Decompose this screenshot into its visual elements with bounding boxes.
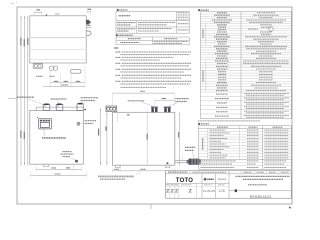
plan view outline — [30, 16, 86, 63]
title block drawing number cell — [229, 189, 291, 199]
side view label supply valve right — [169, 99, 189, 106]
plan view bottom fitting B — [49, 66, 58, 70]
plan view under-dimension row 2 — [43, 85, 85, 86]
front view top fitting 3 — [77, 103, 83, 111]
header parts table — [198, 123, 209, 125]
header maker info — [117, 9, 128, 11]
svg-text:REKB01A23: REKB01A23 — [250, 195, 271, 199]
header replacement unit — [116, 34, 133, 36]
side view inner dimension label — [147, 134, 148, 140]
height dimension line 2 — [24, 16, 25, 166]
side view inner vertical line 2 — [116, 112, 118, 122]
release table — [116, 11, 189, 33]
plan view right fitting dark — [86, 20, 90, 25]
front view under dimension row 2 — [31, 172, 87, 178]
front view note text and drain dot — [61, 152, 78, 163]
spec table — [200, 12, 291, 119]
side view connection block with pipe circles — [106, 106, 117, 112]
power lamp label right of front view — [80, 121, 96, 124]
side view outline — [113, 112, 175, 165]
stop valve detail drawing — [175, 159, 201, 165]
label stop valve W32 — [51, 99, 67, 104]
side view top dimension 350 — [112, 91, 174, 112]
plan view inner line 3 — [30, 59, 86, 61]
header spec table — [198, 9, 209, 11]
parts table — [199, 126, 292, 170]
side view bottom dimension row — [113, 168, 175, 173]
stop valve detail label — [185, 147, 196, 157]
front view foot — [43, 164, 48, 166]
front view top fitting 2 — [56, 104, 63, 111]
replacement unit table — [116, 37, 189, 45]
front view top fitting 1 — [43, 104, 50, 111]
title block top row — [166, 171, 292, 174]
height dimension line 3 — [27, 16, 28, 166]
svg-text:21.06.25: 21.06.25 — [203, 189, 215, 193]
side view label stop valve — [128, 101, 153, 106]
height dimension label 5 — [24, 132, 25, 140]
front view under dimension row 1 — [37, 163, 82, 171]
height dimension line 1 — [20, 16, 21, 166]
notes block — [114, 47, 191, 87]
spec table footnote — [198, 120, 260, 122]
label supply valve W32 strainer — [81, 98, 99, 104]
bottom leader text stop valve handle — [98, 172, 141, 180]
plan view under-dimension row 1 — [50, 66, 85, 87]
label spout W32 — [17, 97, 44, 105]
stop valve detail ext line — [167, 155, 183, 164]
plan view right small dimension — [86, 9, 91, 15]
plan view top dimension 45 — [34, 9, 42, 16]
title block stamp grid — [166, 183, 230, 198]
side view section mark B — [127, 114, 129, 115]
plan view top leader arrow — [45, 13, 59, 16]
plan view inner line 1 — [30, 36, 86, 38]
title block approval cell — [202, 171, 229, 199]
gap vertical dimension 2 — [98, 108, 101, 165]
plan view right second small dimension — [86, 25, 90, 29]
side view inner vertical line — [146, 112, 148, 165]
gap vertical dimension — [105, 112, 107, 165]
height dimension label 4 — [20, 131, 21, 139]
top-left corner mark — [11, 2, 17, 4]
side view right dimension line — [178, 112, 180, 165]
bottom-right page mark — [289, 206, 292, 208]
side view top fitting stop valve — [151, 107, 158, 113]
drawing frame border — [17, 7, 292, 204]
title block date and scale — [203, 189, 225, 193]
side view foot right — [165, 165, 170, 167]
plan view inner line 2 — [30, 48, 86, 50]
side view top fitting supply valve — [164, 107, 171, 113]
svg-text:1:15: 1:15 — [218, 189, 225, 193]
TOTO logo — [176, 178, 194, 184]
title block outline — [166, 171, 292, 199]
front view model label leader — [42, 129, 66, 139]
title block note cell text — [236, 176, 291, 184]
left margin center mark — [8, 97, 17, 99]
side view foot left — [116, 165, 121, 167]
front view top cover line — [36, 107, 83, 110]
plan view under labels — [36, 75, 54, 77]
plan view right fitting outline D — [86, 31, 91, 35]
front view indicator port — [77, 122, 80, 125]
plan view bottom fitting A — [33, 64, 42, 69]
bottom-center fold mark — [150, 204, 152, 209]
side view top dimension 139 — [155, 98, 175, 108]
front view outline — [30, 110, 84, 164]
front view control panel — [37, 117, 52, 129]
front view top right corner mark — [84, 109, 86, 110]
plan view bottom fitting C stadium — [71, 70, 82, 74]
